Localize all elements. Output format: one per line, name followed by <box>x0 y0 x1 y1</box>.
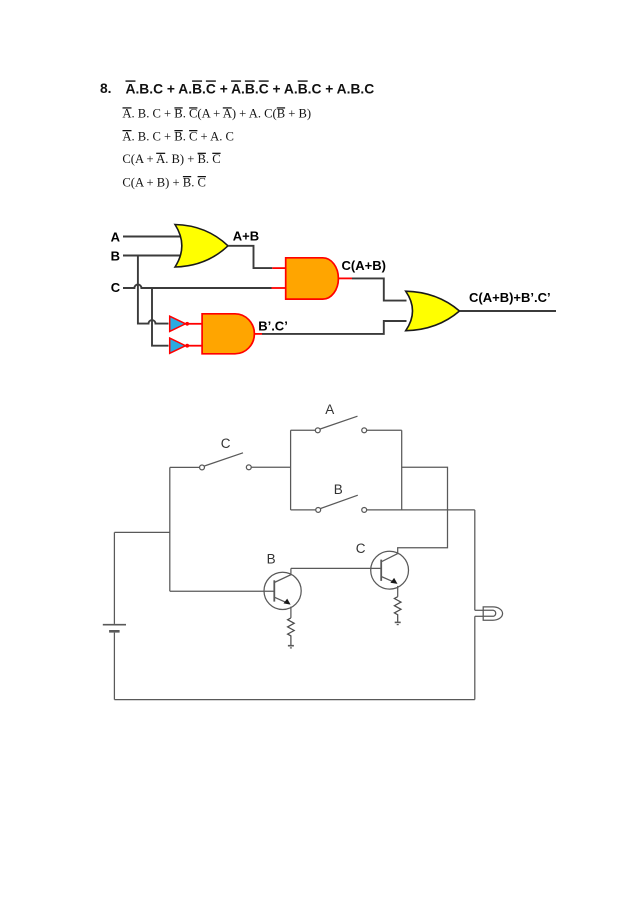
wire transistor B emitter down <box>290 607 292 618</box>
ground tick transistor C <box>395 621 401 623</box>
wire top rail right segment <box>367 429 402 431</box>
wire red stub INV2 to AND2 <box>189 345 203 347</box>
transistor B collector diagonal <box>274 568 291 582</box>
svg-text:A: A <box>111 229 121 244</box>
svg-text:C(A + B) + B. C: C(A + B) + B. C <box>122 175 205 189</box>
wire input B <box>123 255 185 257</box>
wire collector B to base C <box>291 567 381 569</box>
wire bottom rail <box>114 699 474 701</box>
ground dot transistor C <box>397 624 399 626</box>
wire bottom rail left segment <box>291 509 316 511</box>
parallel box left vertical <box>290 430 292 510</box>
transistor B circle <box>264 572 301 609</box>
overbars line 5 <box>183 176 206 177</box>
svg-text:8.: 8. <box>100 81 112 96</box>
wire base lead transistor B <box>170 590 274 592</box>
svg-text:A. B. C + B. C + A. C: A. B. C + B. C + A. C <box>122 129 234 143</box>
transistor C base bar <box>380 560 382 581</box>
switch A left terminal <box>315 428 320 433</box>
or-gate OR2 final <box>406 291 460 331</box>
wire bottom rail right segment extended to lamp branch <box>367 509 475 511</box>
wire C branch vertical to inverter 2 <box>152 288 169 346</box>
wire red stub AND2 output <box>255 333 262 335</box>
wire input C (hop over B vertical) <box>123 285 272 288</box>
ground tick transistor B <box>288 645 294 647</box>
switch B blade <box>321 495 358 508</box>
transistor B base bar <box>273 580 275 601</box>
svg-text:C(A+B): C(A+B) <box>342 258 386 273</box>
svg-text:C(A + A. B) + B. C: C(A + A. B) + B. C <box>122 152 220 166</box>
transistor B emitter arrowhead <box>284 599 291 605</box>
parallel box right vertical <box>401 430 403 510</box>
transistor B emitter diagonal <box>274 597 287 603</box>
wire box exit to transistor C collector <box>398 467 448 553</box>
wire battery top lead <box>113 532 115 624</box>
wire switch C right lead to box <box>252 466 291 468</box>
switch C blade <box>204 453 243 466</box>
resistor R1 (under transistor B) <box>288 618 295 645</box>
wire left vertical from switch C down <box>169 467 171 591</box>
wire transistor C emitter down <box>397 586 399 597</box>
inverter INV2 <box>170 338 186 353</box>
wire input A <box>123 236 185 238</box>
transistor C emitter arrowhead <box>390 578 397 584</box>
wire red stub AND1 bottom input <box>272 287 287 289</box>
wire red stub AND1 output <box>338 277 352 279</box>
svg-text:C: C <box>221 436 231 451</box>
wire OR2 output <box>460 310 557 312</box>
switch C left terminal <box>200 465 205 470</box>
formulas <box>100 81 374 189</box>
switch A blade <box>320 416 357 429</box>
inverter INV1 <box>170 316 186 331</box>
svg-text:A+B: A+B <box>233 228 259 243</box>
svg-text:C(A+B)+B’.C’: C(A+B)+B’.C’ <box>469 290 551 305</box>
svg-text:C: C <box>111 280 121 295</box>
wire top rail left segment <box>291 429 316 431</box>
wire lamp bottom stub <box>475 615 483 617</box>
wire lamp branch vertical lower <box>474 616 476 699</box>
ground dot transistor B <box>290 647 292 649</box>
svg-text:A.B.C + A.B.C + A.B.C + A.B.C: A.B.C + A.B.C + A.B.C + A.B.C + A.B.C <box>126 81 375 96</box>
and-gate AND2 B'.C' <box>202 314 254 354</box>
and-gate AND1 C(A+B) <box>286 258 339 299</box>
transistor C circle <box>371 551 409 589</box>
wire battery bottom lead <box>113 633 115 700</box>
overbars line 2 <box>123 107 286 108</box>
svg-text:B’.C’: B’.C’ <box>258 318 288 333</box>
svg-text:A: A <box>325 402 334 417</box>
wire lamp branch vertical upper <box>474 510 476 610</box>
overbars line 3 <box>123 130 198 131</box>
svg-text:B: B <box>111 249 120 264</box>
svg-text:C: C <box>356 541 366 556</box>
transistor C emitter diagonal <box>381 577 394 583</box>
wire AND1 output to OR2 top input <box>352 278 407 300</box>
inverter INV2 output dot <box>185 344 189 348</box>
resistor R2 (under transistor C) <box>394 597 401 622</box>
wire lamp top stub <box>475 609 483 611</box>
wire AND2 output to OR2 bottom input <box>262 321 407 334</box>
transistor C collector diagonal <box>381 554 398 562</box>
lamp body outer <box>483 607 502 620</box>
switch B right terminal <box>362 507 367 512</box>
lamp body inner <box>483 610 496 616</box>
svg-text:B: B <box>267 551 276 566</box>
battery short plate <box>109 630 120 633</box>
wire A+B output to AND1 <box>228 246 272 268</box>
wire B branch vertical to inverter 1 <box>138 256 169 324</box>
switch C right terminal <box>246 465 251 470</box>
wire battery branch horizontal <box>114 531 169 533</box>
overbars line 4 <box>156 153 220 154</box>
wire red stub INV1 to AND2 <box>189 323 203 325</box>
wire switch C left lead <box>170 466 200 468</box>
svg-text:A. B. C + B. C(A + A) + A. C(B: A. B. C + B. C(A + A) + A. C(B + B) <box>122 107 311 121</box>
switch B left terminal <box>316 507 321 512</box>
inverter INV1 output dot <box>185 322 189 326</box>
or-gate OR1 (A+B) <box>175 225 228 268</box>
wire red stub AND1 top input <box>272 267 286 269</box>
battery long plate <box>103 624 126 626</box>
switch A right terminal <box>362 428 367 433</box>
svg-text:B: B <box>334 482 343 497</box>
